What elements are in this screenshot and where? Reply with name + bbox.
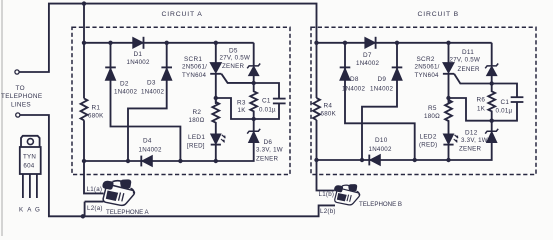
wire: top rail A — [84, 42, 254, 44]
svg-text:27V, 0.5W: 27V, 0.5W — [220, 55, 251, 62]
diode D1 1N4002 (series, pointing right) — [133, 37, 143, 48]
svg-text:K: K — [19, 207, 24, 214]
diode D9 1N4002 (cathode up) with wire to left leg — [362, 43, 397, 160]
node: bottom line junction L2(a) — [81, 214, 85, 218]
capacitor C1 0.01u (circuit B) — [492, 84, 517, 121]
svg-text:1N4002: 1N4002 — [369, 146, 392, 153]
node: SCR2 gate / D11 anode — [490, 81, 494, 85]
svg-text:L2(b): L2(b) — [320, 208, 336, 215]
svg-text:L2(a): L2(a) — [87, 205, 103, 212]
wire: T2 down and bottom common line — [20, 115, 335, 216]
LED2 (RED) — [443, 134, 453, 144]
svg-text:LINES: LINES — [11, 102, 31, 109]
svg-text:SCR2: SCR2 — [417, 56, 435, 63]
label TO TELEPHONE LINES — [1, 85, 42, 109]
svg-text:1K: 1K — [477, 106, 486, 113]
wire: SCR2 cathode step to R6 bottom node — [449, 98, 492, 121]
terminal T2 to telephone lines — [16, 113, 20, 117]
node: SCR1 cathode — [214, 96, 218, 100]
diode D10 1N4002 (series on bottom rail, pointing left) — [368, 155, 370, 166]
svg-text:680K: 680K — [321, 111, 337, 118]
svg-text:604: 604 — [23, 163, 34, 170]
node: D2 top — [108, 41, 112, 45]
svg-text:R4: R4 — [324, 103, 333, 110]
svg-text:CIRCUIT A: CIRCUIT A — [162, 11, 203, 18]
svg-text:1N4002: 1N4002 — [141, 89, 164, 96]
zener D12 3.3V 1W (cathode up) — [491, 121, 493, 132]
diode D8 1N4002 (cathode up) with wire to right leg — [345, 43, 415, 160]
node: rail B top at x=316.5 — [314, 41, 318, 45]
svg-text:D8: D8 — [350, 76, 359, 83]
svg-text:L1(a): L1(a) — [87, 186, 103, 193]
svg-text:TYN604: TYN604 — [182, 72, 207, 79]
resistor R3 1K — [250, 83, 257, 119]
svg-text:(RED): (RED) — [419, 142, 437, 149]
zener D11 27V 0.5W (cathode up) — [491, 43, 493, 84]
zener D6 3.3V 1W (cathode up) — [253, 119, 255, 143]
resistor R1 680K — [81, 98, 88, 120]
svg-text:1N4002: 1N4002 — [139, 147, 162, 154]
wire: top rail B — [317, 42, 492, 44]
svg-text:3.3V, 1W: 3.3V, 1W — [256, 147, 283, 154]
resistor R6 1K — [488, 84, 495, 121]
telephone B icon — [334, 184, 360, 205]
svg-text:2N5061/: 2N5061/ — [182, 64, 207, 71]
wire: SCR1 cathode step to R3 bottom node — [216, 98, 254, 119]
SCR1 2N5061/TYN604 — [215, 43, 217, 104]
svg-text:R2: R2 — [193, 109, 202, 116]
node: LED2 bottom — [446, 158, 450, 162]
svg-text:R3: R3 — [237, 100, 246, 107]
svg-text:3.3V, 1W: 3.3V, 1W — [461, 137, 488, 144]
wire: main vertical A (x=84) — [83, 4, 85, 99]
wire: main vertical B (x=316.5) — [316, 43, 318, 98]
svg-text:CIRCUIT B: CIRCUIT B — [418, 11, 460, 18]
telephone A icon — [102, 179, 134, 205]
svg-text:SCR1: SCR1 — [184, 56, 202, 63]
svg-text:1N4002: 1N4002 — [356, 60, 379, 67]
svg-text:D1: D1 — [134, 51, 143, 58]
svg-text:1N4002: 1N4002 — [127, 59, 150, 66]
svg-text:680K: 680K — [88, 113, 104, 120]
dashed box CIRCUIT A — [72, 27, 290, 174]
wire: below R1 to bottom rail and L1(a) — [84, 120, 104, 193]
wire: below R4 to bottom rail and L1(b) — [317, 120, 335, 191]
svg-text:TYN604: TYN604 — [415, 72, 440, 79]
node: SCR2 cathode — [446, 96, 450, 100]
svg-text:TELEPHONE A: TELEPHONE A — [106, 209, 150, 216]
resistor R2 180ohm — [212, 98, 219, 134]
svg-text:ZENER: ZENER — [222, 63, 245, 70]
svg-text:D6: D6 — [264, 139, 273, 146]
resistor R4 680K — [313, 98, 320, 120]
node: D3 leg bottom — [126, 159, 130, 163]
node: rail A bottom at x=84 — [82, 159, 86, 163]
diode D2 1N4002 (cathode up) with wire to right leg — [111, 43, 181, 161]
wire: bottom rail A — [84, 143, 254, 162]
node: D8 leg bottom — [413, 158, 417, 162]
svg-text:C1: C1 — [262, 98, 271, 105]
svg-text:R6: R6 — [477, 97, 486, 104]
svg-text:2N5061/: 2N5061/ — [415, 64, 440, 71]
diode D7 1N4002 (series, pointing right) — [365, 37, 375, 48]
svg-text:D2: D2 — [120, 81, 129, 88]
capacitor C1 0.01u — [254, 83, 279, 119]
node: D3 top — [165, 41, 169, 45]
node: D2 leg bottom — [178, 159, 182, 163]
svg-text:LED2: LED2 — [420, 134, 437, 141]
node: rail A top at x=84 — [82, 41, 86, 45]
node: R6 bottom / D12 cathode — [490, 119, 494, 123]
wire: T1 to top rail feed — [19, 4, 316, 72]
svg-text:D10: D10 — [375, 137, 388, 144]
svg-text:C1: C1 — [501, 99, 510, 106]
LED1 [RED] — [211, 134, 221, 144]
resistor R5 180ohm — [445, 97, 452, 134]
svg-text:TELEPHONE B: TELEPHONE B — [359, 201, 402, 208]
svg-text:G: G — [35, 207, 40, 214]
node: D8 top — [343, 41, 347, 45]
scan edge artifact — [1, 0, 3, 236]
zener D5 27V 0.5W (cathode up) — [253, 43, 255, 83]
svg-text:ZENER: ZENER — [459, 146, 482, 153]
wire: bottom rail B — [317, 143, 492, 161]
svg-text:1N4002: 1N4002 — [370, 86, 393, 93]
svg-text:D9: D9 — [378, 76, 387, 83]
svg-text:D11: D11 — [462, 49, 474, 56]
diode D4 1N4002 (series on bottom rail, pointing left) — [140, 156, 142, 167]
svg-text:R5: R5 — [428, 105, 437, 112]
node: D9 top — [395, 41, 399, 45]
svg-text:D12: D12 — [465, 130, 478, 137]
svg-text:0.01µ: 0.01µ — [259, 107, 276, 114]
svg-text:A: A — [27, 207, 32, 214]
svg-text:ZENER: ZENER — [458, 66, 481, 73]
node: R3 bottom / D6 cathode — [252, 117, 256, 121]
node: LED1 bottom — [214, 159, 218, 163]
node: rail B bottom at x=316.5 — [314, 158, 318, 162]
svg-text:1N4002: 1N4002 — [114, 89, 137, 96]
wire: L2(a) stub — [85, 202, 104, 217]
node: SCR1 anode — [214, 41, 218, 45]
svg-text:D3: D3 — [147, 80, 156, 87]
svg-text:27V, 0.5W: 27V, 0.5W — [450, 57, 481, 64]
node: top wire junction to circuit A — [82, 1, 86, 5]
svg-text:R1: R1 — [92, 105, 101, 112]
node: SCR2 anode — [446, 41, 450, 45]
svg-text:1K: 1K — [238, 107, 247, 114]
svg-text:1N4002: 1N4002 — [342, 86, 365, 93]
svg-text:[RED]: [RED] — [187, 143, 205, 150]
svg-text:LED1: LED1 — [188, 134, 205, 141]
svg-text:L1(b): L1(b) — [319, 191, 335, 198]
svg-text:0.01µ: 0.01µ — [496, 108, 513, 115]
dashed box CIRCUIT B — [311, 27, 536, 174]
svg-text:ZENER: ZENER — [256, 156, 279, 163]
svg-text:180Ω: 180Ω — [189, 117, 205, 124]
svg-text:TO: TO — [16, 85, 25, 92]
svg-text:TYN: TYN — [23, 154, 36, 161]
SCR2 2N5061/TYN604 — [448, 43, 450, 104]
TYN604 package (TO-220) — [20, 136, 41, 198]
svg-text:180Ω: 180Ω — [424, 113, 440, 120]
svg-text:D5: D5 — [229, 48, 238, 55]
node: D9 leg bottom — [360, 158, 364, 162]
terminal T1 to telephone lines — [15, 70, 19, 74]
svg-text:D7: D7 — [363, 52, 372, 59]
diode D3 1N4002 (cathode up) with wire to left leg — [128, 43, 167, 161]
svg-text:TELEPHONE: TELEPHONE — [1, 93, 42, 100]
node: SCR1 gate / D5 anode — [252, 81, 256, 85]
svg-text:D4: D4 — [143, 138, 152, 145]
